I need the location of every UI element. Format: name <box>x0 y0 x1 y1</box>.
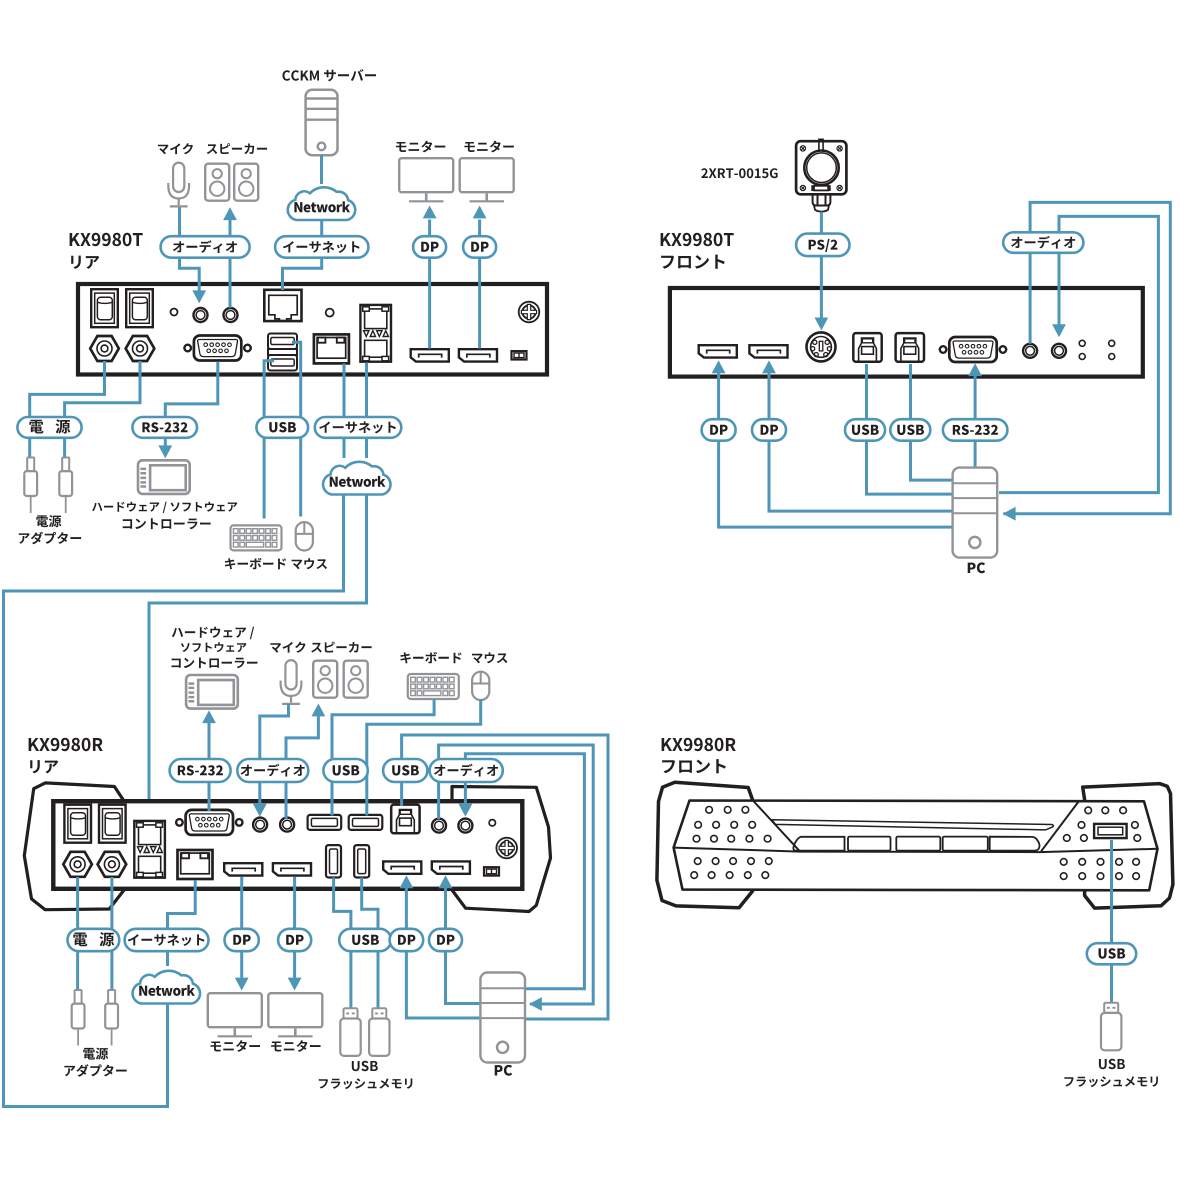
CCKM server tower icon <box>306 90 338 155</box>
USB-B port (R) <box>391 805 419 834</box>
wire route A cloud2 to cloud3 via left edge <box>4 494 344 1107</box>
DisplayPort in 1 (T-front) <box>699 345 737 357</box>
label pill USB (R-front) <box>1087 943 1136 964</box>
USB-B port 1 (T-front) <box>853 333 881 362</box>
title KX9980T front <box>661 233 734 269</box>
wire DP1 to PC (T-front) <box>719 373 953 527</box>
wire power pill to plug2 <box>63 437 66 458</box>
label pill DP A (R) <box>225 929 259 951</box>
label pill USB (T-rear) <box>256 417 308 438</box>
power jack 1 (R) <box>63 852 92 877</box>
Network cloud 3 <box>133 971 200 1004</box>
LED pair 2 (T-front) <box>1109 340 1115 359</box>
wire power pill to plug1 (R) <box>76 950 79 990</box>
right mounting wing (R-rear) <box>452 787 551 912</box>
arrow into DB9 (T-front) <box>968 363 982 376</box>
USB-A port 2 (R) <box>349 815 383 830</box>
title KX9980R front <box>662 738 736 773</box>
DisplayPort 2 (R) <box>273 863 311 875</box>
label pill DP B (R) <box>278 929 311 951</box>
wire mouse to USB port2 (R) <box>367 699 481 816</box>
DisplayPort out 2 (T-rear) <box>459 349 497 361</box>
power switch 2 (T-rear) <box>126 289 153 327</box>
wire RS-232 pill to controller arrow <box>164 437 167 447</box>
label power adapter (R) <box>64 1048 126 1077</box>
wire RJ45 to ethernet pill (R) <box>168 880 196 930</box>
audio jack 2 (R) <box>280 818 294 832</box>
label 2XRT-0015G <box>701 168 777 178</box>
wire power jack2 to power pill <box>65 361 140 418</box>
label keyboard (R) <box>400 652 461 663</box>
arrow into DP4 (R) <box>439 875 453 888</box>
top strip (R-front) <box>772 820 1054 830</box>
DC plug 2 (R) <box>105 990 118 1046</box>
Network cloud 2 <box>323 462 390 495</box>
wire route B cloud2 to R-rear SFP <box>149 494 367 818</box>
keyboard icon (T) <box>231 525 282 550</box>
wire ethernet pill1 to RJ45 (T-rear) <box>283 220 322 290</box>
label pill audio (T-front) <box>1003 232 1083 253</box>
arrow into monitor2 <box>473 206 487 219</box>
arrow into PS/2 port <box>815 318 829 331</box>
audio jack 1 (T-front) <box>1023 344 1037 358</box>
label pill PS/2 <box>796 234 849 257</box>
USB-A vertical port 2 (R) <box>354 845 369 877</box>
wire RS-232 to PC (T-front) <box>974 376 977 468</box>
wire DP line 1 (T-rear) <box>428 220 431 349</box>
DB9 serial (T-front) <box>940 337 1006 362</box>
microphone icon (R) <box>281 660 302 704</box>
label pill USB flash (R) <box>339 929 391 951</box>
label pill ethernet 2 (T-rear) <box>315 417 402 438</box>
wire audio jack2 arrow line (R) <box>465 754 584 989</box>
power switch 1 (T-rear) <box>91 289 118 327</box>
label pill ethernet (R) <box>125 929 209 951</box>
label mouse (R) <box>472 652 507 663</box>
wire audio jack1 to PC (T-front) <box>1003 202 1170 513</box>
wire RS-232 pill to controller (R) <box>208 722 211 759</box>
label pill ethernet (T-rear) <box>275 236 368 258</box>
arrow into speaker (R) <box>312 704 326 717</box>
button slots (R-front) <box>793 837 1039 851</box>
ethernet RJ45 (T-rear top) <box>264 290 301 321</box>
label USB flash memory (R) <box>319 1061 413 1089</box>
DisplayPort out 1 (T-rear) <box>411 349 449 361</box>
label monitor 2 (T-rear) <box>464 141 513 153</box>
DC plug 1 (R) <box>72 990 85 1046</box>
wire USB2 to PC (T-front) <box>911 364 954 480</box>
mini switch (T-rear) <box>512 351 527 359</box>
DisplayPort 1 (R) <box>224 863 262 875</box>
LED pair 1 (T-front) <box>1079 340 1085 359</box>
arrow into speaker <box>223 207 237 220</box>
label pill USB 2 (R) <box>383 759 427 782</box>
KX9980R rear panel <box>53 801 522 889</box>
arrow into audio jack2 (R) <box>459 804 473 817</box>
wire power jack2 to pill (R) <box>110 877 113 930</box>
wire USB port2 to flash2 (R) <box>362 878 378 1009</box>
label hardware/software controller (T) <box>92 502 237 530</box>
power jack 2 (R) <box>98 852 127 877</box>
wire speaker to audio jack2 (R) <box>286 716 318 819</box>
wire PS2 pill to port <box>820 256 823 318</box>
label pill audio 2 (R) <box>430 759 503 782</box>
LED 2 (T-rear) <box>326 309 334 317</box>
monitor icon 1 (R) <box>208 993 262 1036</box>
controller icon (T) <box>138 460 190 494</box>
wire USB port top to mouse <box>292 342 301 516</box>
wire DP3 to PC (R) <box>406 888 480 1019</box>
ground screw (R) <box>496 838 517 859</box>
wire USB port to pill (R-front) <box>1110 840 1113 944</box>
wire server to cloud <box>320 155 323 184</box>
PC tower (T-front) <box>953 468 998 558</box>
DB9 serial port (T-rear) <box>184 336 250 361</box>
wire USB port1 to flash1 (R) <box>334 878 351 1009</box>
monitor icon 2 (T-rear) <box>460 158 514 201</box>
arrow into controller (R) <box>202 710 216 723</box>
monitor icon 1 (T-rear) <box>399 158 453 201</box>
label pill DP 2 (T-rear) <box>463 236 496 258</box>
SFP module (R) <box>134 821 165 878</box>
label hardware/software controller (R) <box>172 627 258 669</box>
label pill DP 1 (T-rear) <box>413 236 446 258</box>
wire power jack1 to power pill <box>30 361 105 418</box>
wire RJ45 to ethernet pill2 <box>343 364 346 418</box>
keyboard icon (R) <box>408 674 459 699</box>
wire DP1 to monitor1 (R) <box>240 877 243 979</box>
audio jack 1 (T-rear) <box>194 308 208 322</box>
wire DP2 to PC (T-front) <box>769 373 953 511</box>
arrow into PC right (T-front) <box>1003 507 1016 521</box>
KX9980T rear panel <box>78 284 547 375</box>
label pill audio 1 (R) <box>237 759 308 782</box>
mouse icon (T) <box>296 522 313 550</box>
wire USB-B to PC route (R) <box>402 735 608 1019</box>
power jack 1 (T-rear) <box>90 336 119 361</box>
arrow into monitor1 <box>423 206 437 219</box>
left mounting wing (R-rear) <box>24 783 124 910</box>
RJ45 LAN port (T-rear bottom) <box>314 334 349 363</box>
wire power pill to plug2 (R) <box>110 950 113 990</box>
arrow into DP1 (T-front) <box>712 360 726 373</box>
front face (R-front) <box>674 801 1158 891</box>
audio jack 2 (T-front) <box>1052 344 1066 358</box>
wire 2XRT to PS2 pill <box>820 212 823 234</box>
PC tower (R) <box>480 973 525 1063</box>
wire mic to audio jack1 (T-rear) <box>180 208 200 292</box>
label pill power (R) <box>68 929 120 951</box>
label keyboard mouse (T) <box>225 558 327 569</box>
wire SFP to ethernet pill2 <box>365 363 368 418</box>
arrow into monitor2 (R) <box>288 978 302 991</box>
label pill USB 1 (T-front) <box>845 419 885 441</box>
monitor icon 2 (R) <box>268 993 322 1036</box>
label USB flash memory (R-front) <box>1064 1059 1158 1087</box>
label PC (R) <box>495 1065 513 1076</box>
audio jack 3 (R) <box>432 819 446 833</box>
arrow into monitor1 (R) <box>235 978 249 991</box>
power jack 2 (T-rear) <box>126 336 155 361</box>
wire RS-232 pill to DB9 (R) <box>208 782 211 811</box>
wire DP2 to monitor2 (R) <box>293 877 296 979</box>
label pill DP C (R) <box>390 929 424 951</box>
wire audio jack1 to PC route (R) <box>439 745 594 1004</box>
LED (R) <box>489 820 495 826</box>
label pill DP D (R) <box>429 929 462 951</box>
speaker icons (T-rear) <box>205 164 258 201</box>
mini switch (R) <box>484 867 499 875</box>
KX9980T front panel <box>670 288 1143 377</box>
right bracket (R-front) <box>1083 784 1173 909</box>
wire mic to audio jack1 (R) <box>260 704 289 805</box>
2XRT-0015G PS/2 device icon <box>796 139 846 211</box>
label pill RS-232 (R) <box>170 759 231 782</box>
SFP fiber module (T-rear) <box>360 305 391 362</box>
label mic (R) <box>270 642 305 653</box>
label pill DP 2 (T-front) <box>752 419 786 441</box>
ventilation holes (R-front) <box>691 807 1141 880</box>
USB flash drive (R-front) <box>1101 1003 1121 1051</box>
wire DP line 2 (T-rear) <box>478 220 481 349</box>
Network cloud (top) <box>288 187 355 220</box>
arrow into DP2 (T-front) <box>762 360 776 373</box>
left bracket (R-front) <box>657 782 753 908</box>
wire ethernet pill to cloud3 (R) <box>166 950 169 966</box>
audio jack 4 (R) <box>458 819 472 833</box>
ground screw (T-rear) <box>519 302 540 323</box>
mouse icon (R) <box>472 672 489 700</box>
wire keyboard to USB port1 (R) <box>332 700 434 816</box>
arrow into audio jack2 (T-front) <box>1052 324 1066 337</box>
USB-A port 1 (R) <box>308 815 342 830</box>
arrow into controller (T) <box>158 445 172 458</box>
audio jack 1 (R) <box>253 818 267 832</box>
label monitor 1 (T-rear) <box>396 141 445 153</box>
DB9 serial (R) <box>176 810 242 835</box>
wire audio jack2 to PC (T-front) <box>999 216 1158 492</box>
wire power jack1 to pill (R) <box>76 877 79 930</box>
label power adapter (T) <box>19 515 81 544</box>
PS/2 port (T-front) <box>807 332 836 361</box>
wire USB port bottom to keyboard <box>264 361 274 519</box>
label PC (T-front) <box>968 562 986 573</box>
arrow into mic jack <box>192 290 206 303</box>
USB-A vertical port 1 (R) <box>326 845 341 877</box>
label CCKM server <box>283 69 377 81</box>
label pill DP 1 (T-front) <box>702 419 736 441</box>
DC plug 2 (T) <box>59 458 72 514</box>
label speaker (R) <box>311 642 371 653</box>
label pill USB 1 (R) <box>323 759 367 782</box>
wire power pill to plug1 <box>28 437 31 458</box>
power switch 1 (R) <box>64 805 91 843</box>
DisplayPort in 2 (T-front) <box>749 345 787 357</box>
title KX9980R rear <box>29 738 103 774</box>
arrow into audio jack1 (R) <box>253 804 267 817</box>
arrow into PC right (R) <box>529 997 542 1011</box>
label monitor 2 (R) <box>271 1040 320 1052</box>
controller icon (R) <box>186 675 238 709</box>
USB ports stack (T-rear) <box>268 334 297 371</box>
arrow into DP3 (R) <box>400 875 414 888</box>
wire ethernet pill2 to cloud2 left <box>343 437 346 458</box>
wire pill to flash drive (R-front) <box>1110 964 1113 1003</box>
label pill USB 2 (T-front) <box>890 419 930 441</box>
wire DB9 to RS-232 pill <box>165 362 218 419</box>
DisplayPort 3 (R) <box>383 861 421 873</box>
label monitor 1 (R) <box>211 1040 260 1052</box>
DisplayPort 4 (R) <box>432 861 470 873</box>
label pill RS-232 (T-front) <box>943 419 1008 441</box>
DC plug 1 (T) <box>24 458 37 514</box>
label mic (T-rear) <box>158 143 193 154</box>
USB-B port 2 (T-front) <box>896 333 924 362</box>
title KX9980T rear <box>70 233 143 269</box>
wire ethernet pill2 to cloud2 right <box>365 437 368 458</box>
LED (T-rear) <box>171 309 178 316</box>
wire speaker to audio jack2 (T-rear) <box>229 220 232 308</box>
RJ45 port (R) <box>178 850 213 879</box>
power switch 2 (R) <box>99 805 126 843</box>
USB port (R-front) <box>1094 824 1127 838</box>
label pill audio (T-rear) <box>161 236 250 258</box>
USB flash drive 2 (R) <box>369 1008 389 1056</box>
label speaker (T-rear) <box>207 143 267 154</box>
audio jack 2 (T-rear) <box>224 308 238 322</box>
microphone icon (T-rear) <box>168 163 189 207</box>
label pill power (T-rear) <box>17 417 81 438</box>
wire USB1 to PC (T-front) <box>867 364 954 494</box>
USB flash drive 1 (R) <box>340 1008 360 1056</box>
wire DP4 to PC (R) <box>446 888 481 1004</box>
face creases (R-front) <box>674 801 1158 853</box>
speaker icons (R) <box>313 661 368 698</box>
label pill RS-232 (T-rear) <box>132 417 197 438</box>
